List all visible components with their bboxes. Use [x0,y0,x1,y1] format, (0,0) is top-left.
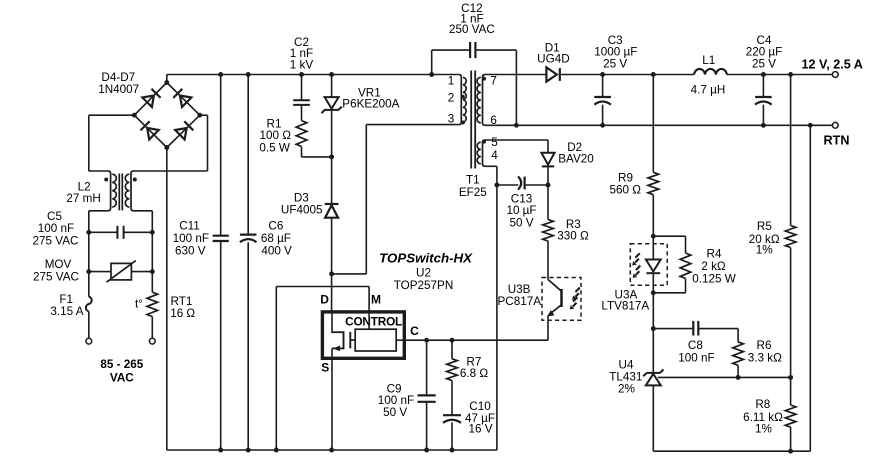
wire L2 left bottom lead [89,211,108,233]
mosfet U2 internal [331,312,355,351]
wire bias return [496,185,498,450]
label L2 value [66,180,100,205]
svg-text:T1: T1 [466,173,480,186]
wire pin4 lead [485,166,497,185]
wire C10 lower [451,422,453,450]
svg-text:27 mH: 27 mH [66,192,100,205]
wire C8 left [653,328,693,330]
wire R3 to opto collector [547,241,549,280]
node VR1-R1-D3 [329,154,334,159]
svg-text:CONTROL: CONTROL [345,315,402,329]
wire C12 left lead [432,50,470,74]
svg-text:250 VAC: 250 VAC [449,23,495,36]
wire R8 lower [790,427,792,451]
node RT1-C5 [150,230,155,235]
label CONTROL [345,315,402,329]
phase dot pin3 [461,121,465,125]
svg-text:EF25: EF25 [459,186,487,199]
label F1 value [50,293,83,318]
wire bridge top to rail [166,75,168,83]
svg-text:16 V: 16 V [468,422,492,435]
capacitor C9 [418,395,436,401]
wire LED lower [652,273,654,293]
optocoupler U3B transistor [547,280,561,317]
wire C11 lower [220,241,222,450]
wire R8 upper [790,377,792,405]
inductor T1 bias winding [477,140,485,166]
wire VR1 to node [331,110,333,157]
node bridge bottom [164,145,169,150]
svg-text:1N4007: 1N4007 [98,83,139,96]
phase dot pin7 [482,77,486,81]
wire bridge edge bottom-right [167,115,200,147]
resistor R7 [447,359,458,381]
svg-text:D3: D3 [294,191,309,204]
capacitor C12 [470,42,475,58]
svg-text:TOP257PN: TOP257PN [394,279,454,292]
node opto anode [651,234,656,239]
svg-text:L1: L1 [702,54,715,67]
wire C13 node to R3 [547,185,549,220]
svg-text:C: C [410,324,419,338]
wire AC input left column (F1 branch) [88,272,90,339]
svg-text:P6KE200A: P6KE200A [342,97,399,110]
svg-text:5: 5 [491,136,498,149]
wire D2 to C13 node [547,166,549,185]
pin label 2 [448,91,455,104]
node rail pin1/C12 [429,72,434,77]
node R9 top [651,72,656,77]
wire L2 right top lead [134,115,208,171]
inductor T1 primary winding [459,75,466,125]
wire C13 right [525,184,548,186]
wire C4 upper [762,75,764,98]
node C3 bottom [600,123,605,128]
core L2 [119,174,122,211]
svg-text:R5: R5 [757,220,772,233]
label TOP257PN [394,279,454,292]
wire right column C5 to MOV [151,232,153,271]
inductor L1 [694,69,727,75]
svg-text:4: 4 [491,149,498,162]
capacitor C13 [518,176,525,189]
wire MOV row left [89,271,111,273]
phase dot pin5 [482,140,486,144]
svg-text:12 V, 2.5 A: 12 V, 2.5 A [802,57,863,71]
pin label M [371,293,381,307]
svg-text:C6: C6 [268,220,283,233]
svg-text:100 nF: 100 nF [38,222,74,235]
svg-text:50 V: 50 V [509,216,533,229]
wire TL431 cathode [652,329,654,373]
wire C6 upper [247,75,249,235]
label R8 value [743,398,783,436]
node opto cathode [651,290,656,295]
tvs VR1 [321,97,341,113]
wire R6 lower [737,365,739,377]
fuse F1 [86,297,92,312]
inductor L2 right winding [125,171,133,211]
wire C6 lower [247,242,249,450]
label C3 value [594,34,637,71]
svg-text:R4: R4 [707,248,722,261]
svg-text:400 V: 400 V [261,244,292,257]
ic U2 inner block [355,329,396,351]
capacitor C10 [443,415,461,423]
wire bridge edge left-top [134,83,167,116]
capacitor C8 [693,321,698,336]
wire M return [275,287,277,451]
wire R1 bottom [302,147,332,157]
node pin4-C13 [494,183,499,188]
svg-text:2%: 2% [618,382,635,395]
wire C5 row left [89,231,118,233]
diode D5 (bridge upper-right) [173,89,191,107]
wire M pin [276,287,369,330]
node C4 bottom [761,123,766,128]
svg-text:100 nF: 100 nF [678,352,714,365]
diode D1 [546,67,559,81]
wire R5 lower [790,248,792,378]
node D2-C13-R3 [546,183,551,188]
wire MOV row right [131,271,152,273]
label U3B [498,283,542,308]
node rail C6 [246,72,251,77]
inductor L2 left winding [108,171,116,211]
svg-text:100 Ω: 100 Ω [259,129,291,142]
svg-text:M: M [371,293,381,307]
wire opto emitter to C line [547,315,549,340]
label D2 value [558,141,594,165]
label C13 value [506,192,536,229]
label C12 value [449,2,495,36]
label D3 value [281,191,323,216]
wire pin3 to drain node [332,125,459,274]
resistor R1 [296,121,307,147]
svg-text:TOPSwitch-HX: TOPSwitch-HX [379,251,473,266]
pin label S [321,360,329,374]
wire AC input right column [151,272,153,339]
node R7 tap [450,338,455,343]
wire top rail primary [167,74,459,76]
svg-text:85 - 265: 85 - 265 [100,358,143,371]
label R6 value [748,339,782,364]
wire pin5 lead [485,140,548,153]
svg-text:1 kV: 1 kV [290,59,314,72]
terminal AC right [149,338,155,344]
wire R9 upper [652,75,654,173]
wire RTN line [485,124,832,126]
wire drain to D pin [331,274,333,312]
node C8 tap [651,326,656,331]
label U2 [416,266,431,279]
svg-text:25 V: 25 V [603,58,627,71]
diode D2 [541,153,554,167]
pin label D [320,293,329,307]
opto U3A light arrows [632,253,640,278]
svg-text:0.125 W: 0.125 W [692,272,736,285]
pin label 7 [490,75,497,88]
svg-text:BAV20: BAV20 [558,152,594,165]
label 85-265 VAC [100,358,143,384]
label C11 value [173,220,209,258]
svg-text:2 kΩ: 2 kΩ [701,260,726,273]
node rail C2 [299,72,304,77]
wire bridge bottom to ground rail [166,148,168,451]
wire L2 left top lead [89,115,135,171]
wire bridge edge top-right [167,83,200,116]
node bridge top [164,80,169,85]
svg-text:3.3 kΩ: 3.3 kΩ [748,352,782,365]
svg-text:VAC: VAC [110,371,134,384]
node C10 ground [450,448,455,453]
node C9 ground [424,448,429,453]
wire TL431 ref [658,376,791,378]
label RTN [824,134,850,148]
optocoupler U3B outline [542,278,581,321]
wire C5 row right [124,231,153,233]
capacitor C4 [755,97,772,105]
svg-text:25 V: 25 V [752,58,776,71]
svg-text:10 µF: 10 µF [506,204,536,217]
svg-text:RTN: RTN [824,134,850,148]
resistor R8 [785,405,796,427]
wire C8 right [698,329,738,342]
wire R7 to C10 [451,381,453,415]
wire primary ground rail [167,449,497,451]
label R1 value [259,117,291,154]
node C11 ground [218,448,223,453]
thermistor RT1 [147,292,158,316]
pin label 4 [491,149,498,162]
phase dot L2 right [133,178,137,182]
capacitor C5 [117,226,123,239]
svg-text:R6: R6 [757,339,772,352]
resistor R6 [733,342,744,365]
label C9 value [378,382,414,418]
svg-text:D4-D7: D4-D7 [101,71,135,84]
wire R9 to opto anode [652,195,654,237]
label R9 value [609,171,641,196]
node bridge left [132,113,137,118]
opto U3B light arrows [570,288,580,310]
node bridge right [197,113,202,118]
node RT1-MOV [150,269,155,274]
svg-text:1%: 1% [755,423,772,436]
wire D3 to D-node [331,218,333,274]
svg-text:6.8 Ω: 6.8 Ω [460,367,488,380]
wire output rail left [560,74,694,76]
svg-text:3: 3 [448,113,455,126]
label C10 value [465,400,495,435]
label R5 value [749,220,780,257]
wire bridge edge bottom-left [134,115,167,147]
svg-text:560 Ω: 560 Ω [609,183,641,196]
label C6 value [261,220,292,258]
label C8 value [678,339,714,364]
svg-text:50 V: 50 V [383,406,407,419]
inductor T1 secondary winding [477,75,485,126]
label U4 value [609,358,642,395]
svg-text:D: D [320,293,329,307]
svg-text:C8: C8 [688,339,703,352]
terminal 12V output [832,72,838,78]
wire C4 lower [762,105,764,126]
diode D4 (bridge upper-left) [142,89,160,107]
svg-text:C11: C11 [179,220,200,233]
label T1 value [459,173,487,199]
label R4 value [692,248,736,286]
wire LED upper [652,236,654,259]
wire bottom return [653,125,810,451]
node drain [329,271,334,276]
pin label C [410,324,419,338]
wire R7 upper [451,340,453,359]
capacitor C11 [213,236,229,241]
node F1-C5 [86,230,91,235]
label 12V output [802,57,863,71]
label t deg [135,298,143,311]
svg-text:2: 2 [448,91,455,104]
label VR1 value [342,86,399,110]
label U3A [601,288,649,312]
wire output rail right [727,74,832,76]
svg-text:MOV: MOV [45,258,72,271]
capacitor C2 [293,100,310,105]
svg-text:275 VAC: 275 VAC [33,270,79,283]
wire R4 top link [653,236,685,253]
svg-text:3.15 A: 3.15 A [50,305,83,318]
svg-text:68 µF: 68 µF [261,232,291,245]
svg-text:C5: C5 [47,210,62,223]
node C12-RTN [514,123,519,128]
svg-text:1%: 1% [756,244,773,257]
wire VR1 upper [331,75,333,98]
label C5 value [33,210,79,247]
node C6 ground [246,448,251,453]
svg-text:1: 1 [448,75,455,88]
label TOPSwitch-HX [379,251,473,266]
svg-text:R8: R8 [755,398,770,411]
resistor R9 [648,172,659,194]
svg-text:7: 7 [490,75,497,88]
transformer T1 core [471,71,475,169]
svg-text:630 V: 630 V [175,244,206,257]
node R8 return [788,449,793,454]
node rail VR1 [329,72,334,77]
wire C12 right lead [475,50,516,125]
node RTN return [808,123,813,128]
svg-text:U4: U4 [619,358,634,371]
phase dot pin2 [461,95,465,99]
wire C3 upper [602,75,604,98]
node R5-R8 feedback [788,375,793,380]
varistor MOV [107,261,136,283]
wire R4 bottom link [653,279,685,293]
resistor R4 [680,253,691,279]
wire C9 upper [426,340,428,395]
capacitor C6 [240,235,257,243]
svg-text:330 Ω: 330 Ω [557,230,589,243]
label R3 value [557,218,589,243]
node C9 tap [424,338,429,343]
svg-text:4.7 µH: 4.7 µH [691,84,726,97]
resistor R5 [785,226,796,248]
node C4 top [761,72,766,77]
svg-text:S: S [321,360,329,374]
node F1-MOV [86,269,91,274]
led U3A [646,260,661,274]
pin label 3 [448,113,455,126]
pin label 6 [490,114,497,127]
svg-text:16 Ω: 16 Ω [170,307,195,320]
svg-text:100 nF: 100 nF [173,232,209,245]
wire C13 left [497,184,518,186]
phase dot L2 left [104,178,108,182]
wire C9 lower [426,402,428,450]
label RT1 value [170,295,195,320]
label L1 value [691,54,726,97]
label C2 value [290,36,314,72]
wire C3 lower [602,105,604,126]
wire R5 upper [790,75,792,226]
terminal RTN [832,122,838,128]
node M ground [274,448,279,453]
wire left column C5 to MOV [88,232,90,271]
node R5 top [788,72,793,77]
wire C pin line [396,339,548,341]
wire TL431 anode [652,385,654,451]
wire pin7 to D1 [485,74,546,76]
wire cathode to C8 node [652,293,654,329]
node R6 feedback [736,375,741,380]
optocoupler U3A outline [630,244,667,285]
label D4-D7 [98,71,139,96]
ic U2 CONTROL box [322,312,404,358]
svg-text:275 VAC: 275 VAC [33,234,79,247]
wire C2 upper [301,75,303,101]
svg-text:U2: U2 [416,266,431,279]
shunt regulator U4 TL431 [643,370,663,386]
label D1 value [537,42,569,66]
wire S pin to ground [331,348,333,450]
resistor R3 [543,220,554,242]
wire node to D3 [331,157,333,204]
wire L2 right bottom lead [134,211,153,233]
pin label 5 [491,136,498,149]
svg-text:F1: F1 [59,293,73,306]
diode D7 (bridge lower-right) [175,121,193,139]
svg-text:0.5 W: 0.5 W [259,141,290,154]
label C4 value [746,34,783,71]
svg-text:LTV817A: LTV817A [601,299,649,312]
node S ground [329,448,334,453]
wire C11 upper [220,75,222,236]
node C3 top [600,72,605,77]
diode D3 [325,204,339,218]
svg-text:PC817A: PC817A [498,295,542,308]
wire C2 to R1 [301,105,303,121]
diode D6 (bridge lower-left) [141,121,159,139]
label MOV value [33,258,79,283]
terminal AC left [86,338,92,344]
node rail C11 [218,72,223,77]
capacitor C3 [594,97,611,105]
svg-text:UF4005: UF4005 [281,204,323,217]
label R7 value [460,355,488,380]
svg-text:UG4D: UG4D [537,53,569,66]
svg-text:t°: t° [135,298,143,311]
